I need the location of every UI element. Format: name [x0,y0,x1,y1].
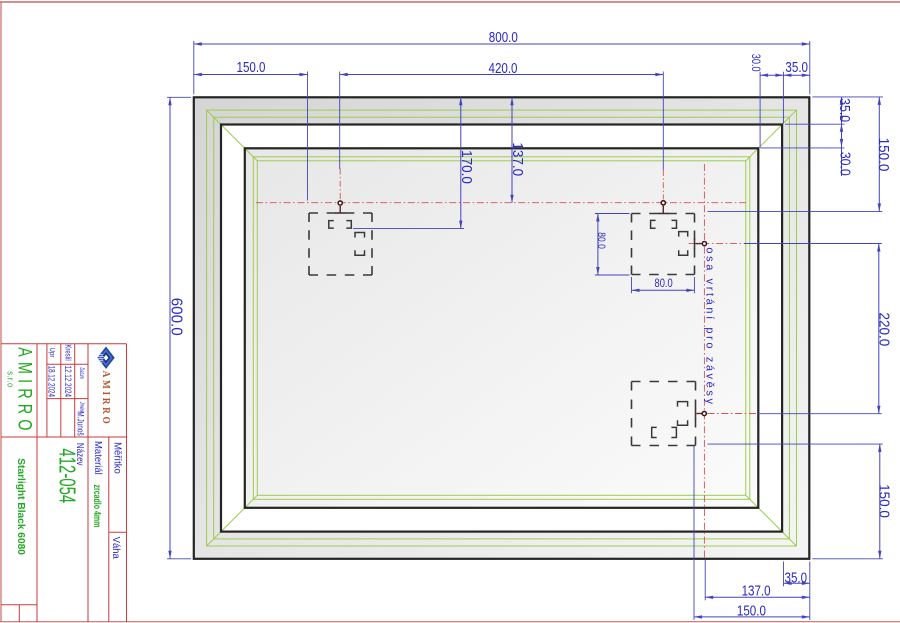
hole 1 tick [339,206,341,213]
green mitre diagonal bottom-right [746,495,797,546]
dimension 80.0 square width [632,289,695,292]
dimension 150.0 right bottom [875,444,892,559]
extension line 150 right side [708,210,883,212]
svg-text:800.0: 800.0 [489,29,518,46]
svg-text:35.0: 35.0 [785,59,808,76]
svg-text:80.0: 80.0 [595,232,607,249]
green sandblast line inner 2 [257,161,746,496]
hanger plate square 1 (dashed) [309,213,372,275]
extension line 35 top right [782,72,784,124]
svg-text:AMIRRO: AMIRRO [100,371,112,427]
extension line axis bottom [704,560,706,601]
hole 3 tick [696,243,702,245]
svg-text:420.0: 420.0 [488,60,517,77]
hanger 3 vertical slot [678,402,688,426]
svg-text:Upr: Upr [48,348,56,358]
drill hole 3 [702,242,706,246]
extension line 150 bottom right side [708,443,883,445]
dimension 35.0 right side [836,97,852,124]
extension line 150 bottom [693,445,695,620]
square edge dash under hole 2 tick [658,213,668,215]
extension line 80 horizontal right [693,277,695,293]
axis vertical hole 2 [662,170,664,199]
extension line 80 horizontal left [631,277,633,293]
svg-text:150.0: 150.0 [875,484,892,518]
green sandblast line inner 1 [253,157,750,500]
svg-text:Kreslil: Kreslil [63,344,71,361]
svg-text:Váha: Váha [110,537,122,559]
extension line 170 slot reference [353,228,464,230]
dimension 150.0 right top [875,97,892,211]
svg-text:osa vrtání pro závěsy: osa vrtání pro závěsy [704,247,716,406]
hanger 2 vertical slot [679,232,688,256]
extension line 150 bracket edge [307,72,309,201]
dimension 80.0 square height [596,214,599,276]
hanger 1 vertical slot [355,233,365,256]
svg-text:220.0: 220.0 [875,313,892,347]
green mitre diagonal bottom-left [207,495,258,546]
svg-text:AMIRRO: AMIRRO [14,347,35,435]
svg-text:600.0: 600.0 [167,298,184,336]
extension line mirror top right side [812,96,883,98]
dimension 137.0 bottom [705,582,810,599]
green sandblast line outer 2 [214,117,790,539]
axis vertical hole 1 [339,169,341,200]
svg-text:Materiál: Materiál [92,441,103,475]
svg-text:35.0: 35.0 [836,98,852,122]
extension line 80 vertical top [595,213,630,215]
extension line 80 vertical bottom [595,274,630,276]
extension line frame inner right [760,147,844,149]
drill hole 1 [338,201,342,205]
dimension 600.0 left [167,97,184,559]
drill hole 4 [702,411,706,415]
svg-text:s.r.o: s.r.o [5,371,16,387]
svg-text:150.0: 150.0 [875,138,892,172]
dimension 170.0 vertical [458,97,475,228]
drill hole 2 [661,201,665,205]
svg-text:Měřítko: Měřítko [112,442,123,474]
dimension 420.0 top [340,60,664,77]
extension line 35 bottom [783,562,785,587]
company name AMIRRO s.r.o. [5,347,35,435]
axis horizontal hole 3 [689,243,745,245]
mirror outer edge 800x600 [194,97,810,559]
mirror face fill (gradient glass) [194,97,810,559]
svg-text:170.0: 170.0 [458,150,475,184]
svg-text:150.0: 150.0 [737,602,766,619]
dimension 35.0 top right [783,59,809,77]
extension line hole3 to 220 dim [744,243,882,245]
axis vertical osa vrtani x=704 [703,164,705,559]
svg-text:35.0: 35.0 [785,569,808,586]
extension line hole2 axis [662,72,664,171]
hole 2 tick [662,206,664,214]
dimension 35.0 bottom [784,569,810,586]
dimension 220.0 right [875,244,892,414]
dimension 30.0 top right [760,74,783,77]
AMIRRO logo diamond [97,347,114,369]
square edge dash at hole 3 tick [694,239,696,249]
svg-text:30.0: 30.0 [749,54,761,72]
extension line mirror right top [809,41,811,94]
extension line mirror bottom right side [812,558,883,560]
extension line 30 top right [759,72,761,148]
svg-text:Název: Název [75,443,86,466]
svg-text:12.12.2024: 12.12.2024 [63,366,73,398]
hanger plate square 2 (dashed) [632,214,695,275]
hole 4 tick [697,413,702,415]
svg-text:137.0: 137.0 [509,142,526,176]
svg-text:M.Junoš: M.Junoš [75,411,85,436]
green mitre diagonal top-left [207,110,258,161]
frame band fill white [221,125,782,532]
dimension 150.0 top left [194,59,308,76]
green sandblast line outer 1 [207,110,797,546]
extension line hole4 to 220 dim [758,413,882,415]
dimension 30.0 right side [837,124,853,176]
hanger plate square 3 (dashed) [632,382,696,446]
frame rectangle middle [221,125,782,532]
horizontal centerline axis through top holes [256,202,746,204]
square edge dash at hole 4 tick [695,409,697,419]
green mitre diagonal top-right [746,110,797,161]
dimension 800.0 top [194,29,810,46]
extension line mirror bottom left side [167,558,191,560]
hanger 3 horizontal slot [652,427,677,437]
extension line mirror top left side [167,96,191,98]
svg-text:30.0: 30.0 [837,152,853,176]
square edge dash under hole 1 tick [335,212,345,214]
extension line frame middle right [785,123,845,125]
extension line mirror right bottom [809,562,811,621]
extension line hole1 axis [339,72,341,170]
svg-text:18.12.2024: 18.12.2024 [46,366,56,398]
extension line mirror left top [193,41,195,94]
svg-text:137.0: 137.0 [742,582,771,599]
dimension 150.0 bottom [694,602,810,619]
svg-text:zrcadlo 4mm: zrcadlo 4mm [92,485,104,528]
frame rectangle inner [245,148,759,508]
dimension 137.0 vertical [509,97,526,202]
axis horizontal hole 4 [708,413,759,415]
svg-text:Datum: Datum [78,367,85,378]
title block frame [1,344,127,622]
svg-text:150.0: 150.0 [236,59,265,76]
hanger 1 horizontal slot [329,221,352,229]
svg-text:Starlight Black 6080: Starlight Black 6080 [15,458,26,555]
hanger 2 horizontal slot [651,220,677,228]
svg-text:80.0: 80.0 [654,277,672,290]
inner glass fill (gradient) [245,148,759,508]
